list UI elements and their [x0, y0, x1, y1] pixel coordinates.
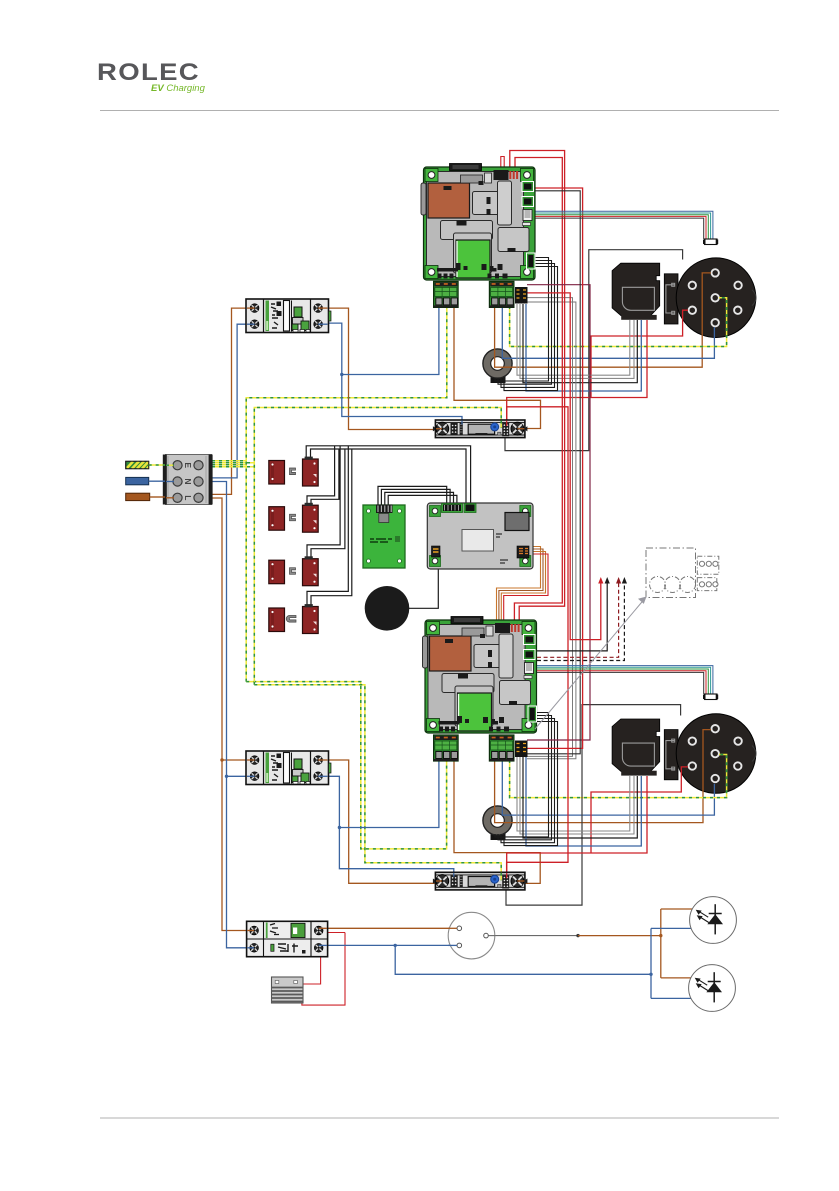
wire supply L brown riser to MCB1: [212, 308, 252, 494]
wire actuator1 black: [523, 304, 637, 383]
wire RCBO brown to lamp: [324, 932, 345, 934]
wire stub overlays MCB1: [247, 307, 255, 309]
wire black relay2 to socket2 lock: [506, 705, 681, 906]
wire lamp to LED junction gray: [486, 935, 578, 937]
fuse link module b: [269, 503, 318, 532]
svg-text:ROLEC: ROLEC: [97, 59, 200, 86]
wire actuator2 black: [523, 757, 637, 838]
breaker MCB1: [246, 299, 331, 333]
wire actuator1 red to relay1: [507, 320, 647, 421]
controller PCB2: [423, 617, 537, 734]
svg-text:EV Charging: EV Charging: [151, 83, 206, 94]
socket S1 with actuator: [612, 258, 756, 338]
wire red socket2 pin down: [591, 767, 688, 853]
wire supply L brown feed to MCB2 and RCBO: [212, 498, 250, 931]
connector socket1 ribbon plug: [705, 239, 718, 245]
wire supply live cable stub: [126, 493, 165, 500]
wire stub overlays lamp: [448, 927, 457, 929]
wire PCB2 left block brown loop to relay2 load: [454, 760, 540, 883]
wire earth E1 supply to PCB1 left block: [212, 460, 246, 462]
wire RFID to display bundle: [378, 486, 447, 507]
contactor optional phantom: [646, 548, 719, 598]
wire fuse module drop m3: [307, 446, 340, 560]
wire actuator2 gray 2: [520, 757, 634, 834]
terminal block PCB2 left: [434, 735, 459, 761]
wire red solid to optional CT: [527, 293, 601, 640]
wire actuator2 blue: [526, 757, 641, 846]
wire earth trunk B lower to relay2: [254, 685, 501, 880]
wire red bus PCB1 to PCB2 A: [510, 151, 565, 625]
wire brown LED feed: [661, 908, 692, 910]
wire red relay1-relay2 link: [507, 407, 568, 876]
wire red socket1 pin to lower run: [591, 310, 688, 397]
socket S2 with actuator: [612, 714, 756, 794]
wire PCB1 left block brown loop to relay1 load: [454, 306, 541, 429]
fuse link module a: [269, 457, 318, 486]
wire fuse module drop m2: [307, 446, 335, 506]
meter module relay1: [433, 420, 528, 438]
CT ring 1: [483, 349, 512, 383]
wire red link PCB1-PCB2 connectors: [527, 188, 583, 748]
wire CT2 black bundle to PCB2: [495, 713, 549, 837]
wire actuator2 gray 1: [517, 757, 630, 831]
svg-text:L: L: [183, 495, 193, 500]
wire gray link PCB1 aux B: [527, 302, 576, 759]
wire earth trunk B: [254, 408, 501, 685]
wire stub overlays relay2: [436, 880, 442, 882]
wire black link PCB1-PCB2: [527, 191, 580, 754]
wire E2 dashed PCB2 right block to socket2: [510, 755, 727, 798]
top rule: [100, 110, 779, 112]
wire gray link PCB1 aux A: [527, 298, 573, 757]
LED indicator 2: [689, 965, 736, 1012]
wire ribbon PCB2 to socket2 connector: [537, 666, 713, 694]
wire MCB1 brown out to relay1 line: [322, 308, 443, 429]
controller PCB1: [421, 164, 535, 281]
wire red dashed to optional CT: [537, 583, 619, 657]
wire supply N blue riser to MCB1: [212, 324, 252, 478]
wire earth trunk A lower to PCB2 block: [246, 682, 446, 849]
wire display to PCB2 power bundle: [497, 547, 541, 625]
wire N2 blue PCB2 right block to socket2: [502, 760, 714, 815]
PSU striped box: [272, 977, 304, 1003]
buzzer: [365, 586, 410, 631]
meter module relay2: [433, 872, 528, 890]
wire earth trunk A: [246, 308, 447, 682]
svg-text:N: N: [183, 478, 193, 484]
leader arrow to phantom contactor: [535, 600, 644, 730]
wire maroon link PCB1-PCB2: [527, 285, 590, 740]
wire MCB2 blue out to PCB2 block and relay2: [322, 776, 454, 876]
connector PCB1 aux black: [515, 287, 528, 304]
wire buzzer to display: [408, 568, 438, 608]
wire supply earth cable stub: [126, 461, 165, 468]
wire earth E2 supply to relay1: [212, 462, 254, 464]
wire N1 blue PCB1 right block to socket1: [502, 306, 714, 358]
wire RCBO blue to lamp and LEDs: [324, 944, 458, 946]
LED indicator 1: [690, 897, 737, 944]
wire fuse module bus to display: [306, 446, 470, 505]
terminal block PCB2 right: [489, 735, 514, 761]
wire black solid to optional CT: [537, 583, 607, 651]
wire earth E4 supply to relay2: [212, 466, 254, 468]
wire L2 brown PCB2 right block to socket2: [495, 730, 711, 823]
terminal block PCB1 right: [489, 281, 514, 307]
wire supply neutral cable stub: [126, 477, 165, 484]
logo ROLEC EV Charging: [97, 59, 206, 94]
wire RCBO red jumpers to PSU box: [302, 933, 345, 1006]
bottom rule: [100, 1117, 779, 1119]
RFID board: [363, 505, 405, 569]
wire MCB1 blue out to PCB1 block and relay1: [322, 323, 462, 424]
wire E1 dashed PCB1 right block to socket1: [510, 298, 727, 347]
wire fuse module drop m4: [307, 446, 348, 608]
wire CT1 black bundle to PCB1: [495, 258, 549, 382]
wire stub overlays relay1: [436, 428, 442, 430]
wire stub overlays RCBO: [247, 930, 254, 932]
wire blue LED feed: [651, 927, 692, 929]
lamp photocell: [448, 912, 495, 959]
wire stub overlays supply block: [166, 464, 174, 466]
wire earth E3 supply to PCB2 left block: [212, 464, 246, 466]
wire actuator2 red to relay2: [507, 776, 647, 876]
wire supply N blue feed to MCB2 and RCBO: [212, 482, 250, 948]
wire ribbon PCB1 to socket1 connector: [533, 211, 713, 239]
display board: [427, 503, 533, 569]
svg-text:E: E: [183, 462, 193, 468]
wire stub overlays MCB2: [247, 759, 255, 761]
fuse link module d: [269, 604, 318, 633]
wire black dashed to optional CT: [537, 583, 624, 661]
wire actuator1 blue: [526, 304, 641, 391]
wire MCB2 brown out to relay2 line: [322, 760, 441, 883]
connector socket2 ribbon plug: [705, 694, 718, 700]
terminal block supply incoming: [163, 455, 213, 505]
wire black relay1 to socket1 lock: [505, 250, 683, 451]
terminal block PCB1 left: [434, 281, 459, 307]
wire L1 brown PCB1 right block to socket1: [495, 273, 711, 367]
wire red bus PCB1 to PCB2 B: [514, 158, 562, 625]
wire red loop PCB1 top: [501, 157, 504, 169]
wire actuator1 gray 2: [520, 304, 634, 378]
wire actuator1 gray 1: [517, 304, 630, 375]
CT ring 2: [483, 806, 512, 840]
connector PCB2 aux black: [515, 741, 528, 758]
fuse link module c: [269, 556, 318, 585]
breaker MCB2: [246, 751, 331, 785]
breaker RCBO bottom: [247, 921, 328, 956]
